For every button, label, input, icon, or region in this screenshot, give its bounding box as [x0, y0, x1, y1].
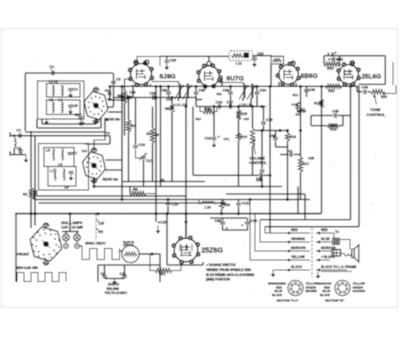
- svg-text:BROWN: BROWN: [306, 289, 317, 293]
- wire box1 down 2: [36, 119, 38, 128]
- wire IF2 primary return: [242, 98, 244, 101]
- svg-text:R15: R15: [241, 112, 248, 116]
- svg-text:R17: R17: [303, 162, 310, 166]
- harness wire left YELLOW: [286, 259, 310, 261]
- wire C43 to pot: [367, 91, 370, 93]
- ground harness ground: [272, 270, 274, 274]
- wire R18 left: [311, 125, 328, 127]
- loudspeaker LS: [352, 245, 359, 262]
- wire C37 bottom: [238, 206, 240, 214]
- junction (167,213.7): [166, 212, 169, 215]
- wire R21 to cathode: [172, 264, 181, 271]
- wire C42 left: [328, 58, 332, 60]
- wire right margin tick: [385, 93, 397, 95]
- junction (262,106.5): [261, 105, 264, 108]
- wire plate to C43: [357, 91, 362, 93]
- junction (196,86.4): [195, 85, 198, 88]
- wire stub: [159, 55, 161, 57]
- wire C19 top: [263, 107, 265, 122]
- capacitor C17a: [141, 157, 146, 159]
- wire box down: [270, 64, 272, 86]
- wire R23 right down: [339, 56, 341, 64]
- wire V1 grid: [108, 106, 114, 108]
- svg-text:TONE: TONE: [370, 108, 381, 112]
- capacitor C29: [165, 61, 170, 63]
- wire lamp header: [62, 231, 79, 233]
- wire box1 down: [41, 119, 43, 124]
- svg-text:R22: R22: [328, 89, 335, 93]
- ground C15 ground: [157, 226, 159, 231]
- wire ballast to R21: [150, 254, 155, 271]
- switch blade: [96, 219, 100, 232]
- coil box L1 L2: [47, 84, 81, 98]
- coil L0 aerial choke: [14, 138, 16, 148]
- resistor R24 tone pot: [371, 90, 385, 94]
- capacitor C11: [122, 276, 127, 278]
- wire R2 top: [124, 86, 126, 91]
- wire C9a top: [109, 90, 111, 93]
- wire R17 mid: [300, 131, 302, 158]
- resistor R4: [126, 120, 130, 132]
- junction (168,199.5): [167, 198, 170, 201]
- capacitor C28: [153, 95, 155, 100]
- junction (122,199.5): [121, 198, 124, 201]
- wire aerial input: [10, 135, 45, 137]
- wire pot end down: [384, 92, 386, 97]
- junction (270,86.4): [269, 85, 272, 88]
- svg-text:C33: C33: [197, 98, 203, 102]
- wire C35 bottom: [261, 173, 263, 187]
- ground box1 ground a: [46, 119, 48, 122]
- wire C34 bottom: [256, 95, 258, 107]
- svg-text:C1: C1: [17, 128, 22, 132]
- wire long vertical det: [269, 86, 271, 233]
- wire long vertical 3b: [171, 112, 173, 182]
- wire element to ballast: [120, 250, 123, 252]
- resistor R1: [29, 188, 33, 199]
- wire harness feed 5: [273, 269, 286, 271]
- svg-text:R14: R14: [241, 135, 248, 139]
- wire range switch feed 1: [30, 131, 32, 188]
- junction (98,213.7): [97, 212, 100, 215]
- svg-text:CH: CH: [99, 230, 104, 234]
- svg-text:R19: R19: [296, 113, 302, 117]
- svg-text:BLACK: BLACK: [320, 293, 331, 297]
- wire 6U7G plate to IF2: [219, 83, 243, 85]
- wire long vertical right 2: [350, 86, 352, 219]
- wire output box right side: [384, 56, 386, 85]
- wire link: [152, 253, 160, 255]
- wire nest corner 2: [36, 190, 38, 196]
- wire R6 bottom: [152, 143, 154, 182]
- resistor R19: [319, 100, 323, 108]
- svg-text:C26: C26: [130, 91, 136, 95]
- capacitor C1 top: [52, 71, 54, 76]
- wire long vertical right 1: [321, 86, 323, 213]
- harness wire left RED: [286, 232, 310, 234]
- capacitor C7: [68, 153, 73, 155]
- wire L16 left: [199, 200, 202, 204]
- junction (300.5,130.5): [299, 129, 302, 132]
- capacitor C2: [18, 150, 23, 152]
- wire 6J8G pin 4: [150, 84, 152, 86]
- wire power bus 2: [260, 219, 351, 221]
- resistor L12 winding: [232, 54, 244, 58]
- wire socket left: [166, 214, 168, 265]
- junction (262,130.5): [261, 129, 264, 132]
- svg-text:C21: C21: [224, 137, 230, 141]
- junction (94,186.5): [93, 185, 96, 188]
- ground earth ground: [25, 155, 27, 160]
- wire C16 bottom: [136, 149, 142, 159]
- IF2 tuning arrows: [239, 86, 256, 100]
- svg-text:R20: R20: [224, 203, 231, 207]
- coil L4: [61, 102, 63, 113]
- junction (156,97.5): [155, 96, 158, 99]
- junction (252.5,106.5): [251, 105, 254, 108]
- ground C8 ground: [70, 175, 72, 178]
- capacitor C36a: [228, 92, 233, 94]
- wire C37 top: [238, 200, 240, 203]
- wire tone arrow: [375, 96, 377, 105]
- wire C30 top: [168, 86, 170, 91]
- wire 6J8G pin 1: [132, 85, 134, 98]
- harness wire right + BLACK: [316, 259, 330, 261]
- svg-text:C28: C28: [150, 92, 157, 96]
- svg-text:C44: C44: [292, 103, 298, 107]
- junction (287.5,199.5): [286, 198, 289, 201]
- wire C38b link: [276, 146, 288, 148]
- wire L16 right: [214, 203, 217, 205]
- svg-text:C20: C20: [244, 117, 250, 121]
- svg-text:VIEWED FROM SPINDLE END: VIEWED FROM SPINDLE END: [206, 268, 252, 272]
- wire IF2 secondary out: [250, 98, 252, 107]
- harness wire left BLACK: [286, 269, 310, 271]
- C1 lead tick: [51, 69, 53, 71]
- svg-text:6.3V - .15 AMP: 6.3V - .15 AMP: [62, 225, 85, 229]
- coil L10: [187, 84, 189, 98]
- ground C29 ground: [166, 64, 168, 67]
- junction (152,254): [151, 253, 154, 256]
- coil L3: [52, 102, 54, 113]
- svg-text:L12: L12: [236, 62, 242, 66]
- capacitor C3: [111, 82, 116, 84]
- ground mains ground: [114, 279, 116, 282]
- wire to voice coil: [341, 253, 345, 255]
- capacitor C8: [69, 172, 74, 174]
- svg-text:R18: R18: [330, 127, 337, 131]
- wire harness feed 4: [250, 200, 286, 261]
- tube V6 25Z6G: [174, 238, 198, 262]
- coil L14: [251, 84, 253, 98]
- svg-text:● RANGE SWITCH: ● RANGE SWITCH: [206, 263, 236, 267]
- wire C44a link top: [298, 102, 301, 104]
- wire long vertical IF to rectifier: [185, 107, 187, 239]
- diode load resistor: [273, 59, 282, 62]
- wire tube1 bottom pin 3: [104, 118, 106, 132]
- wire R20 top: [221, 199, 223, 202]
- junction (160.5,86.4): [159, 85, 162, 88]
- capacitor C37: [236, 203, 241, 205]
- wire det plate vertical: [300, 86, 302, 130]
- wire junction v: [109, 86, 111, 97]
- svg-text:L16: L16: [205, 206, 211, 210]
- wire C41 link left: [280, 154, 289, 156]
- ground C5 ground: [70, 108, 72, 111]
- wire V1 cathode: [108, 111, 122, 113]
- socket B (power plug): [335, 280, 350, 295]
- svg-text:IN EXTREME ANTI-CLOCKWISE: IN EXTREME ANTI-CLOCKWISE: [206, 273, 254, 277]
- svg-text:C5: C5: [73, 104, 78, 108]
- capacitor C19: [261, 122, 266, 124]
- dial lamp P2: [74, 234, 81, 241]
- svg-text:C16: C16: [216, 101, 223, 105]
- wire corner drop 2: [297, 187, 299, 214]
- resistor R13: [203, 109, 214, 113]
- wire AF return vertical: [192, 107, 194, 176]
- lamp holder P1: [64, 244, 69, 249]
- svg-text:C30: C30: [161, 88, 168, 92]
- harness wire right BLACK TO L.S. FRAME: [316, 269, 347, 271]
- capacitor C34: [252, 58, 257, 60]
- output transformer T2: [332, 238, 340, 245]
- wire trimmer down: [143, 160, 145, 187]
- capacitor C17: [230, 104, 232, 109]
- junction (70,213.7): [69, 212, 72, 215]
- wire 6J8G pin 3: [145, 85, 147, 88]
- underline black to frame: [321, 271, 352, 273]
- ground C4 ground: [70, 92, 72, 95]
- svg-text:ORANGE: ORANGE: [291, 237, 305, 241]
- capacitor C16a: [133, 146, 138, 148]
- svg-text:L13 L14: L13 L14: [240, 103, 253, 107]
- svg-text:C34: C34: [260, 88, 267, 92]
- harness wire right BLUE: [316, 241, 332, 243]
- wire 6B6G grid cap lead: [292, 61, 294, 64]
- wire C6 top: [80, 113, 82, 116]
- svg-text:C29: C29: [170, 59, 177, 63]
- chassis boundary (dashed): [311, 228, 313, 277]
- wire C45 right: [338, 115, 351, 117]
- svg-text:C43: C43: [362, 86, 369, 90]
- svg-text:BLACK: BLACK: [272, 293, 283, 297]
- capacitor C4: [68, 89, 73, 91]
- wire to grid: [339, 64, 341, 66]
- wire caps bottom: [105, 278, 125, 280]
- resistor R23: [324, 62, 340, 66]
- capacitor C36c: [260, 173, 262, 178]
- wire osc feedback: [94, 132, 105, 149]
- wire right margin corner: [395, 85, 397, 94]
- svg-text:C13: C13: [82, 149, 88, 153]
- wire C9 top: [104, 265, 106, 275]
- switch wafer S1 spindle-end wafer: [30, 227, 62, 261]
- 25Z6G electrodes: [180, 244, 192, 256]
- capacitor C39: [220, 222, 225, 224]
- wire C38b top: [275, 131, 277, 137]
- junction (280,130.5): [279, 129, 282, 132]
- wire harness feed 3: [255, 214, 286, 251]
- capacitor C30: [166, 92, 171, 94]
- junction wafer feed: [106, 119, 109, 122]
- resistor R20: [219, 200, 223, 209]
- svg-text:RED: RED: [321, 228, 328, 232]
- resistor R6: [150, 128, 154, 143]
- wire C11 top: [124, 265, 126, 275]
- resistor R16: [285, 133, 289, 141]
- tube V5 25L6G: [339, 65, 359, 85]
- wire right margin lead: [392, 62, 394, 85]
- resistor R8: [130, 191, 146, 195]
- wire to lower tube: [85, 143, 110, 145]
- coil L13: [243, 84, 245, 98]
- resistor R21: [155, 268, 172, 272]
- svg-text:(MIN) POSITION: (MIN) POSITION: [206, 278, 231, 282]
- tube V2 6J8G: [131, 64, 152, 85]
- resistor R2: [122, 91, 126, 103]
- ground C18 ground: [213, 141, 215, 145]
- ground C9a ground: [109, 95, 111, 98]
- wire R18 right: [339, 125, 344, 127]
- wire 6U7G plate down: [221, 76, 223, 86]
- junction (156,86.4): [155, 85, 158, 88]
- wire to element: [15, 268, 17, 282]
- svg-text:L1 L2: L1 L2: [49, 80, 58, 84]
- wire R16 top: [287, 131, 289, 134]
- wire R15 top: [238, 107, 240, 111]
- harness wire right MAROON: [316, 250, 332, 252]
- coil L8: [63, 169, 65, 180]
- wire nest 2: [37, 127, 101, 129]
- svg-text:SECTION “3-A”: SECTION “3-A”: [277, 299, 300, 303]
- shield box antenna coils: [38, 81, 85, 119]
- svg-text:R5: R5: [165, 107, 170, 111]
- shield box oscillator coils: [39, 144, 89, 191]
- wire C40 top: [247, 218, 249, 221]
- svg-text:VOLTS AC&DC: VOLTS AC&DC: [105, 291, 128, 295]
- svg-text:T2: T2: [335, 230, 339, 234]
- range switch contact ring: [58, 246, 60, 248]
- harness wire left ORANGE: [286, 241, 310, 243]
- resistor R16 volume pot: [250, 128, 254, 146]
- capacitor C34a: [255, 92, 260, 94]
- svg-text:REAR Sw: REAR Sw: [103, 178, 119, 182]
- ballast taps element left: [17, 273, 66, 282]
- svg-text:BLUE: BLUE: [321, 237, 330, 241]
- wire C34 top: [254, 56, 256, 57]
- svg-text:C39: C39: [215, 219, 222, 223]
- resistor R22: [326, 84, 342, 88]
- wire heater bus 2: [94, 186, 282, 188]
- svg-text:R11: R11: [217, 92, 223, 96]
- wire nest bus B: [39, 202, 227, 204]
- svg-text:C45: C45: [332, 110, 339, 114]
- wire down to lower section: [109, 136, 111, 144]
- wire C14 top: [167, 200, 169, 202]
- wire range switch feed 2: [34, 136, 36, 214]
- wire top bus to L12: [160, 55, 229, 57]
- svg-text:ORANGE: ORANGE: [353, 289, 366, 293]
- svg-text:FRONT: FRONT: [17, 253, 30, 257]
- svg-text:R12: R12: [293, 93, 299, 97]
- svg-text:R9: R9: [161, 178, 165, 182]
- junction (250,199.5): [249, 198, 252, 201]
- ballast 302: [122, 245, 139, 262]
- arrowhead tone control: [373, 94, 376, 97]
- harness wire right RED: [316, 232, 334, 234]
- wire C45 left: [311, 115, 333, 117]
- junction (270,175.3): [269, 174, 272, 177]
- wire R16 bottom: [287, 141, 289, 200]
- wire R6 top: [152, 107, 154, 129]
- svg-text:MAROON: MAROON: [291, 246, 306, 250]
- svg-text:R19: R19: [314, 102, 321, 106]
- wire fb left corner: [310, 116, 312, 126]
- coil L16 speaker field: [202, 202, 214, 204]
- capacitor C40: [245, 222, 250, 224]
- svg-text:R7: R7: [147, 132, 151, 136]
- wire lamp link 1: [65, 241, 67, 244]
- svg-text:+C37: +C37: [242, 202, 251, 206]
- wire lamp drop 1: [65, 232, 67, 235]
- wire lamps to element: [79, 245, 82, 247]
- wire C41a top: [306, 86, 308, 88]
- wire lamp link 2: [76, 241, 78, 244]
- wire C29 top: [166, 56, 168, 59]
- wire R20 bottom: [221, 209, 223, 214]
- capacitor C33a: [194, 92, 199, 94]
- svg-text:L6: L6: [58, 163, 62, 167]
- svg-text:R24: R24: [381, 95, 387, 99]
- svg-text:R1: R1: [23, 192, 28, 196]
- capacitor C14: [166, 203, 171, 205]
- junction (172,97.5): [171, 96, 174, 99]
- wire 6U7G grid cap up: [208, 56, 210, 61]
- svg-text:C18: C18: [205, 137, 212, 141]
- svg-text:C6: C6: [75, 113, 80, 117]
- wire left frame vertical: [24, 73, 26, 131]
- junction (186,106.5): [185, 105, 188, 108]
- svg-text:C34: C34: [257, 52, 264, 56]
- coil L5: [53, 149, 55, 160]
- svg-text:CONTROL: CONTROL: [367, 113, 386, 117]
- junction (221.5,213.7): [220, 212, 223, 215]
- wire fb right corner: [342, 116, 344, 126]
- junction (186,222): [185, 221, 188, 224]
- svg-text:C1: C1: [50, 65, 55, 69]
- capacitor C35: [260, 170, 265, 172]
- voice coil block: [332, 250, 341, 257]
- capacitor C42: [333, 57, 335, 62]
- wire C14 bottom: [167, 206, 169, 214]
- wire into switch 2: [34, 214, 36, 226]
- junction (262,186.5): [261, 185, 264, 188]
- coil box L5 L6: [44, 148, 74, 167]
- capacitor C1: [19, 133, 21, 138]
- wire 6B6G pin down 2: [295, 83, 297, 86]
- wire socket bottom: [167, 264, 203, 266]
- wire V1 plate to C3 branch: [108, 99, 125, 101]
- coil L2: [61, 86, 63, 96]
- svg-text:C36: C36: [256, 179, 263, 183]
- wire long vertical right 3: [358, 92, 360, 227]
- junction (214,106.5): [213, 105, 216, 108]
- wire power bus 3: [265, 226, 359, 228]
- ground speaker frame ground: [317, 272, 319, 276]
- wire ground bus: [34, 199, 310, 201]
- wire AVC bus: [114, 97, 197, 99]
- wire power left vertical: [15, 214, 17, 268]
